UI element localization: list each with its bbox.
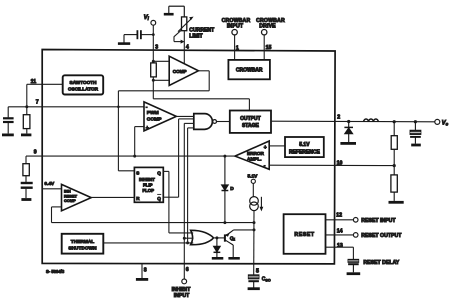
thermal shutdown block [62,234,104,254]
wire error amp minus feedback to pin 10 [269,164,394,166]
svg-text:RESET INPUT: RESET INPUT [361,218,396,224]
wire pin 1 [234,35,236,60]
ground compensation [21,198,31,201]
svg-text:INHIBIT: INHIBIT [139,177,155,182]
svg-text:Q: Q [157,171,161,176]
ground current limit top [164,6,185,14]
ground OR diode [212,257,224,260]
main IC box [42,50,335,264]
inductor L output [364,119,379,122]
svg-text:Q: Q [157,196,161,201]
wire to input capacitor [141,34,153,36]
ground divider [389,201,404,204]
ground oscillator resistor [21,133,31,136]
svg-text:8: 8 [144,267,147,273]
wire pin 4 into comp [183,31,185,64]
wire Qbar output to NAND line [163,196,178,198]
wire PWM plus input from error line [133,127,144,158]
wire PWM output to NAND [176,115,194,117]
svg-text:Vi: Vi [144,15,150,21]
terminal reset input [353,218,358,223]
wire error amp output long line [42,155,235,157]
wire pin 7 to RC [8,106,42,108]
svg-text:12: 12 [336,213,342,219]
svg-text:INPUT: INPUT [174,293,190,299]
resistor compensation [23,164,29,176]
svg-text:S: S [136,171,139,176]
wire pin11 to sawtooth [42,83,63,85]
ground output capacitor [411,144,421,147]
svg-text:R: R [136,196,140,201]
capacitor output electrolytic [410,122,421,144]
svg-text:CURRENT: CURRENT [189,27,215,33]
svg-text:RESET DELAY: RESET DELAY [363,260,399,266]
wire NAND to output stage [217,121,230,123]
terminal Vi [144,15,156,25]
resistor current sense internal [151,63,157,77]
wire pin 14 reset output [326,234,354,236]
node output capacitor junction [414,120,417,123]
svg-text:5: 5 [256,268,259,274]
node catch diode junction [347,120,350,123]
diode D soft start [222,155,229,223]
label CROWBAR DRIVE [256,18,285,30]
wire pin 4 vertical [183,6,185,17]
ground pin 8 [136,278,148,281]
voltage reference block 5.1V [285,137,324,157]
svg-text:10: 10 [337,160,343,166]
wire NAND input from inhibit [183,123,194,279]
wire current source to pin 5 [253,211,255,275]
svg-text:SAWTOOTH: SAWTOOTH [70,80,98,85]
wire 0.4V reference input [42,188,61,190]
resistor divider upper [391,122,397,175]
wire pin 12 reset input [326,219,354,221]
capacitor compensation [21,176,33,198]
wire NAND input from thermal [186,128,194,244]
wire Vi input to pin 3 [152,25,154,61]
node Vi cap junction [152,33,155,36]
terminal 5.1V internal [248,173,259,196]
ground catch diode [340,142,356,145]
svg-text:5.1V: 5.1V [248,173,259,179]
sawtooth oscillator block [63,75,103,94]
wire OR input 2 from inhibit [184,237,193,239]
diode clamp at OR output [214,238,221,257]
svg-text:OUTPUT: OUTPUT [240,116,261,122]
svg-text:REFERENCE: REFERENCE [289,150,321,156]
capacitor oscillator [3,107,14,134]
capacitor reset delay [348,259,359,272]
terminal inhibit input [182,279,187,284]
current source soft start [250,197,264,212]
wire error amp plus to reference [269,145,285,147]
wire output stage to pin 2 [271,120,335,122]
svg-text:6: 6 [186,267,189,273]
crowbar block U-CROWBAR [228,60,270,79]
wire pin 13 reset delay [326,247,354,259]
svg-text:FLOP: FLOP [142,188,154,193]
svg-text:5.1V: 5.1V [299,142,310,148]
terminal Vo [435,119,449,126]
svg-text:SHUTDOWN: SHUTDOWN [68,246,97,252]
wire Q1 collector to current source [234,229,254,231]
ground input capacitor [118,35,130,44]
ground oscillator capacitor [2,133,14,136]
svg-text:4: 4 [186,44,189,50]
wire soft start sense line [52,222,255,224]
capacitor input filter [124,30,141,39]
ground reset delay [347,272,361,275]
node soft start diode junction [223,221,226,224]
svg-text:COMP: COMP [147,116,162,122]
node soft start line end [253,221,256,224]
node pin7 RC junction [25,105,28,108]
ground Cso [248,287,260,290]
wire pin7 sawtooth to PWM [42,106,144,108]
node feedback junction [393,164,396,167]
op-amp ERROR AMPL [235,141,269,169]
op-amp COMP current limit comparator [169,56,198,85]
resistor divider lower [391,175,397,201]
op-amp PWM COMP [144,102,176,131]
node OR output [215,236,218,239]
svg-text:INPUT: INPUT [227,23,244,29]
svg-text:3: 3 [155,45,158,51]
terminal reset output [353,233,358,238]
svg-text:DRIVE: DRIVE [259,23,276,29]
svg-text:D: D [230,186,234,192]
svg-text:LIMIT: LIMIT [189,33,203,39]
wire pin3 supply inside [152,60,250,111]
wire current limit bypass [174,30,185,44]
svg-text:THERMAL: THERMAL [71,239,95,245]
reset block [284,214,326,254]
wire Q output to OR gate [163,171,193,233]
svg-text:13: 13 [337,243,343,249]
label CURRENT LIMIT [189,27,215,39]
wire pin 11 [27,84,42,107]
svg-text:Vo: Vo [442,121,449,127]
flip-flop U-INHIBIT [134,167,163,202]
terminal crowbar drive [262,30,267,35]
svg-text:+: + [264,145,267,151]
logic gate OR [191,230,214,244]
wire pin 2 output [335,120,435,122]
svg-text:OSCILLATOR: OSCILLATOR [68,87,99,92]
svg-text:15: 15 [266,45,272,51]
wire comp output to flipflop S [117,71,209,171]
svg-text:FLIP: FLIP [143,183,153,188]
node divider top [393,120,396,123]
wire comp inputs [153,61,169,80]
svg-text:-: - [146,105,148,111]
ground Q1 emitter [228,257,239,260]
resistor current limit sense [178,17,194,32]
wire pin 9 compensation [26,156,42,164]
diode catch [344,122,353,143]
transistor Q1 [225,230,234,257]
output stage block [230,111,271,133]
svg-text:CROWBAR: CROWBAR [236,68,263,74]
svg-text:1: 1 [236,45,239,51]
svg-text:Q1: Q1 [230,236,236,242]
label CROWBAR INPUT [222,18,251,30]
svg-text:14: 14 [337,228,343,234]
wire OR output [214,237,225,239]
svg-text:PWM: PWM [147,110,159,116]
label INHIBIT INPUT [172,287,192,299]
capacitor Cso soft start [248,275,259,288]
svg-text:RESET OUTPUT: RESET OUTPUT [361,233,402,239]
svg-text:COMP: COMP [64,198,76,203]
svg-text:ERROR: ERROR [247,151,265,156]
svg-text:2: 2 [337,115,340,121]
pin 8 ground wire [141,264,143,278]
svg-text:7: 7 [36,100,39,106]
wire pin 15 [263,35,265,60]
logic gate NAND [194,114,217,130]
op-amp INH RESET COMP [62,184,92,210]
svg-text:9: 9 [34,149,37,155]
terminal crowbar input [232,30,237,35]
svg-text:STAGE: STAGE [242,123,260,129]
svg-text:RESET: RESET [294,232,315,238]
resistor oscillator [23,107,30,134]
wire thermal to OR gate [103,242,193,244]
svg-text:AMPL.: AMPL. [247,157,262,162]
svg-text:S- 5694/3: S- 5694/3 [46,269,65,274]
svg-text:0.4V: 0.4V [44,181,55,187]
wire NAND input from Qbar [179,119,194,197]
wire inh reset comp minus to soft start line [52,207,62,223]
svg-text:COMP: COMP [173,69,187,74]
svg-text:+: + [146,125,149,131]
svg-text:CSO: CSO [262,277,271,283]
wire inh reset comp output to R [91,196,134,198]
node Q1 collector junction [253,228,256,231]
